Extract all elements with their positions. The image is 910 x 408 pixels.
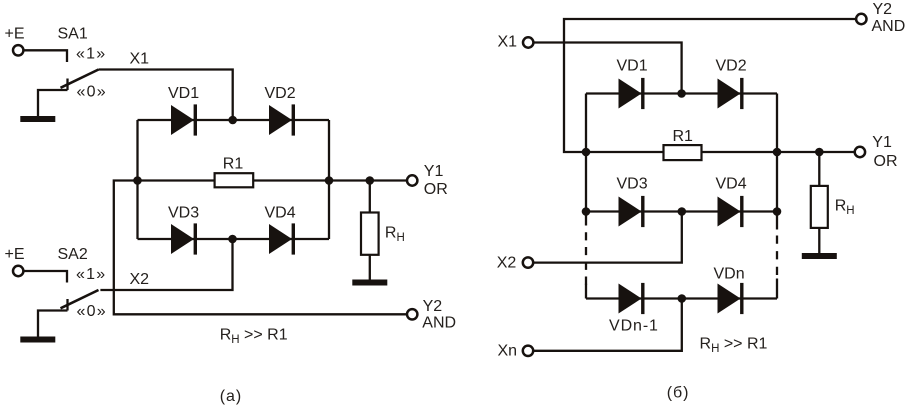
svg-text:RH: RH xyxy=(835,198,855,218)
svg-text:(а): (а) xyxy=(220,388,243,405)
wire Xn input (b) xyxy=(534,299,682,351)
wire X2 input (b) xyxy=(534,212,682,263)
VDn branch wire (b) xyxy=(586,297,777,299)
resistor RH (a) xyxy=(361,213,379,255)
terminal Xn (b) xyxy=(523,346,533,356)
resistor R1 (a) xyxy=(215,173,254,187)
terminal +E SA2 xyxy=(13,266,23,276)
left bus (a) xyxy=(136,120,138,239)
diode VD3 (b) xyxy=(619,196,645,227)
left bus solid upper (b) xyxy=(585,94,587,226)
switch SA1: ground-side wire xyxy=(38,90,68,116)
svg-text:X1: X1 xyxy=(498,33,518,50)
wire X2: bottom branch to switch SA2 xyxy=(100,239,232,290)
svg-text:RH >> R1: RH >> R1 xyxy=(700,336,768,356)
svg-text:AND: AND xyxy=(422,314,456,331)
terminal Y1 (b) xyxy=(855,147,865,157)
right bus solid upper (b) xyxy=(776,94,778,230)
svg-text:+E: +E xyxy=(5,26,25,43)
node: right VD4 branch (b) xyxy=(773,207,782,216)
resistor RH lead (b) xyxy=(818,152,820,253)
terminal +E SA1 xyxy=(13,45,23,55)
svg-text:VD3: VD3 xyxy=(168,205,199,222)
switch SA1: lever xyxy=(61,70,99,88)
ground RH (a) xyxy=(352,280,387,286)
svg-text:Y2: Y2 xyxy=(423,298,443,315)
svg-text:X1: X1 xyxy=(130,51,150,68)
wire X1 input (b) xyxy=(534,43,682,94)
switch SA2: +E contact wire xyxy=(24,271,67,283)
svg-text:VD4: VD4 xyxy=(716,176,747,193)
resistor RH lead (a) xyxy=(369,181,371,280)
left bus solid lower (b) xyxy=(585,284,587,299)
node: RH tap (a) xyxy=(366,176,375,185)
node: left VD3 branch (b) xyxy=(582,207,591,216)
svg-text:+E: +E xyxy=(5,246,25,263)
svg-text:SA2: SA2 xyxy=(58,246,88,263)
top branch wire (a) xyxy=(138,119,330,121)
terminal Y2 (b) xyxy=(856,14,866,24)
svg-text:VD2: VD2 xyxy=(265,85,296,102)
bottom branch wire (a) xyxy=(138,238,330,240)
node: Xn tap (b) xyxy=(678,294,687,303)
switch SA1: +E contact wire xyxy=(24,50,67,62)
svg-text:VD1: VD1 xyxy=(168,85,199,102)
diode VD3 (a) xyxy=(171,223,197,254)
node: right middle junction (b) xyxy=(773,148,782,157)
ground SA2 xyxy=(20,337,55,343)
svg-text:X2: X2 xyxy=(497,255,517,272)
node: X1 tap (b) xyxy=(677,89,686,98)
svg-text:SA1: SA1 xyxy=(58,26,88,43)
wire X1: switch to top branch xyxy=(99,70,233,121)
svg-text:VD3: VD3 xyxy=(617,176,648,193)
switch SA2: ground-side wire xyxy=(38,311,68,337)
svg-text:VDn: VDn xyxy=(714,266,745,283)
switch SA2: lever xyxy=(61,290,99,308)
svg-text:R1: R1 xyxy=(673,128,694,145)
svg-text:OR: OR xyxy=(424,181,448,198)
left bus dashed (b) xyxy=(585,232,587,284)
diode VDn (b) xyxy=(718,283,744,314)
right bus solid lower (b) xyxy=(776,279,778,299)
svg-text:VD1: VD1 xyxy=(617,58,648,75)
terminal X2 (b) xyxy=(523,257,533,267)
svg-text:Y1: Y1 xyxy=(424,163,444,180)
middle branch R1 wire (a) xyxy=(114,181,406,315)
node: RH tap (b) xyxy=(815,148,824,157)
svg-text:Y1: Y1 xyxy=(872,134,892,151)
svg-text:X2: X2 xyxy=(130,271,150,288)
svg-text:VD2: VD2 xyxy=(716,58,747,75)
node: X2 tap on bottom branch (a) xyxy=(228,235,237,244)
node: left middle junction (a) xyxy=(133,176,142,185)
svg-text:Xn: Xn xyxy=(498,343,518,360)
terminal X1 (b) xyxy=(523,37,533,47)
diode VD4 (b) xyxy=(718,196,744,227)
diode VD1 (a) xyxy=(171,104,197,135)
resistor RH (b) xyxy=(811,186,828,228)
terminal Y2 (a) xyxy=(407,309,417,319)
svg-text:«0»: «0» xyxy=(77,303,107,320)
node: right middle junction (a) xyxy=(325,176,334,185)
svg-text:VDn-1: VDn-1 xyxy=(609,318,659,335)
switch SA2: «0» contact stub xyxy=(66,299,68,311)
wire Y2 / AND output (b) xyxy=(564,19,855,152)
VD3 branch wire (b) xyxy=(586,210,777,212)
svg-text:VD4: VD4 xyxy=(265,205,296,222)
node: X2 tap (b) xyxy=(678,207,687,216)
svg-text:AND: AND xyxy=(872,18,906,35)
switch SA1: «0» contact stub xyxy=(66,79,68,91)
diode VDn-1 (b) xyxy=(619,283,645,314)
svg-text:OR: OR xyxy=(874,153,898,170)
wire Y1 output (a) xyxy=(329,179,406,181)
top branch wire (b) xyxy=(586,92,777,94)
diode VD1 (b) xyxy=(619,78,645,109)
node: left middle junction (b) xyxy=(582,148,591,157)
svg-text:«0»: «0» xyxy=(77,84,107,101)
diode VD2 (b) xyxy=(718,78,744,109)
resistor R1 (b) xyxy=(664,145,702,160)
terminal Y1 (a) xyxy=(407,175,417,185)
right bus dashed (b) xyxy=(776,236,778,277)
diode VD2 (a) xyxy=(269,104,295,135)
svg-text:RH >> R1: RH >> R1 xyxy=(220,327,288,347)
svg-text:«1»: «1» xyxy=(76,46,106,63)
svg-text:Y2: Y2 xyxy=(873,1,893,18)
right bus (a) xyxy=(328,120,330,239)
ground RH (b) xyxy=(802,253,837,259)
svg-text:«1»: «1» xyxy=(76,266,106,283)
diode VD4 (a) xyxy=(269,223,295,254)
svg-text:R1: R1 xyxy=(223,156,244,173)
ground SA1 xyxy=(20,116,55,122)
svg-text:RH: RH xyxy=(385,225,405,245)
svg-text:(б): (б) xyxy=(667,385,690,402)
node: X1 drop on top branch (a) xyxy=(228,116,237,125)
